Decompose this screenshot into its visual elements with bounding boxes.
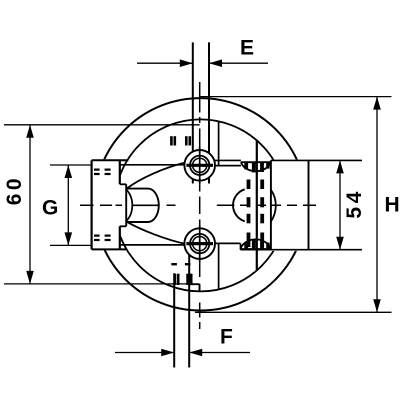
- contact strip vertical top right: [218, 122, 220, 166]
- outer circle: [94, 98, 306, 310]
- switch spindle vertical: [256, 140, 258, 270]
- right block right edge: [308, 160, 310, 250]
- lamp contact lens: [126, 190, 132, 222]
- step down right of bottom screw: [240, 243, 242, 249]
- bridge line bottom right: [215, 242, 241, 244]
- svg-text:G: G: [42, 197, 58, 220]
- top dome hatch bars: [244, 163, 269, 173]
- band top line left segment: [92, 159, 129, 161]
- right block left edge: [270, 160, 272, 250]
- switch cam left bulge: [233, 189, 245, 221]
- left block body (mask): [91, 159, 121, 250]
- dimension 54: [339, 160, 341, 249]
- lamp cavity D shape: [126, 184, 159, 226]
- svg-text:E: E: [240, 37, 254, 60]
- bottom dome chord: [241, 248, 271, 250]
- inner circle: [115, 119, 287, 291]
- screw M1 top: [184, 147, 215, 185]
- band bottom line right segment with 54 extension: [241, 249, 363, 251]
- bell curve bottom: [128, 222, 188, 244]
- bottom dome arc: [241, 239, 271, 249]
- bottom dome hatch bars: [244, 239, 269, 248]
- dimension H: [195, 97, 392, 313]
- bridge line top left: [120, 164, 185, 166]
- top dome arc: [241, 162, 271, 171]
- horizontal centerline: [80, 204, 316, 206]
- bell curve top: [126, 162, 186, 189]
- cavity mid line: [132, 204, 158, 206]
- dimension G: [50, 165, 92, 245]
- svg-text:54: 54: [343, 188, 366, 218]
- cable exit lines F: [174, 253, 189, 368]
- band bottom line left segment: [92, 248, 127, 250]
- band top line right segment with 54 extension: [215, 159, 362, 161]
- top dome chord: [241, 161, 271, 163]
- cable entry lines E: [193, 42, 209, 183]
- bridge line bottom left: [120, 244, 185, 246]
- dimension 60: [4, 125, 200, 284]
- vertical centerline: [199, 82, 201, 329]
- contact strip vertical bottom right: [218, 243, 220, 288]
- left block step bottom: [120, 225, 126, 227]
- screw M2 bottom: [184, 225, 215, 263]
- top mounting slot marks: [170, 136, 191, 145]
- bridge line top right: [215, 165, 241, 167]
- left block outline: [92, 160, 120, 249]
- bottom center step: [189, 284, 199, 291]
- dimension E arrows: [137, 62, 268, 64]
- contact ladder bars: [247, 180, 264, 248]
- svg-text:H: H: [385, 194, 400, 217]
- right block body (mask): [270, 160, 309, 251]
- svg-text:60: 60: [3, 175, 26, 205]
- bottom mounting slot marks: [171, 263, 192, 285]
- dimension F arrows: [115, 352, 250, 354]
- svg-text:F: F: [220, 326, 233, 349]
- left block step top: [120, 183, 126, 185]
- terminal dashes in left block: [94, 169, 111, 242]
- switch cam right lens: [271, 190, 276, 222]
